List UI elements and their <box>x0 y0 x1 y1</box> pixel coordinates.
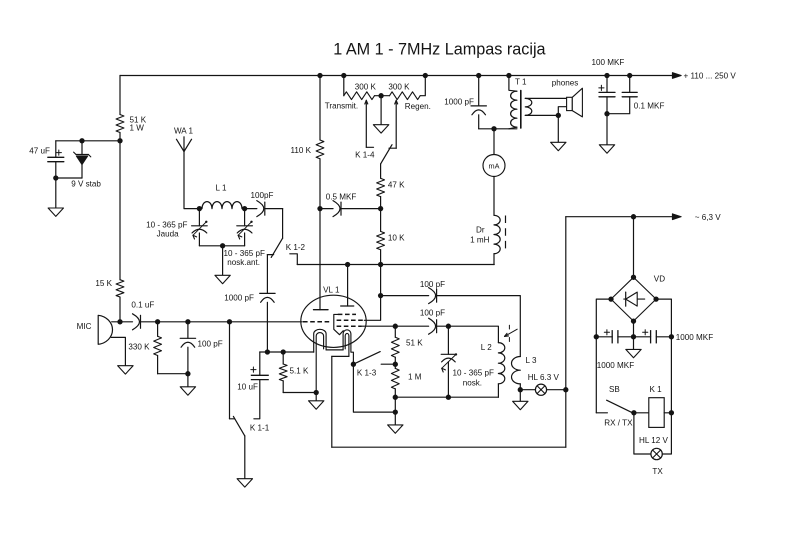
svg-text:WA 1: WA 1 <box>174 127 194 136</box>
resistor 15K <box>116 280 124 297</box>
wire lamp to 6.3V rail <box>547 389 566 391</box>
wire mic to cap <box>112 321 120 323</box>
tube anode shield bracket <box>334 314 344 334</box>
ground cathode <box>309 401 324 409</box>
node bus 110K <box>317 73 322 78</box>
capacitor 1000 pF <box>266 255 268 294</box>
diode VD symbol <box>624 298 645 300</box>
wire tank bottom bus <box>395 396 498 398</box>
svg-text:+ 110 ... 250 V: + 110 ... 250 V <box>684 71 737 80</box>
capacitor 100pF antenna coupling <box>245 208 257 210</box>
node shunt bottom <box>185 371 190 376</box>
svg-text:RX / TX: RX / TX <box>604 418 633 427</box>
svg-text:100 pF: 100 pF <box>420 309 445 318</box>
svg-text:10 K: 10 K <box>388 233 405 242</box>
wire mA to Dr <box>493 177 495 216</box>
diode 9V stab zener <box>81 141 83 155</box>
wire SB to relay <box>634 412 649 414</box>
ground divider <box>388 425 403 433</box>
resistor 51K grid leak <box>394 326 396 337</box>
wire +B top bus <box>120 75 673 77</box>
wire 110K lower <box>319 159 321 209</box>
svg-text:47 uF: 47 uF <box>29 147 50 156</box>
tube grid dashes row2 screen <box>337 319 365 321</box>
speaker phones <box>567 97 573 110</box>
wire SB feed <box>595 337 597 413</box>
transformer T1 core <box>520 91 522 129</box>
switch K1-3 contact <box>381 363 395 365</box>
wire plate output <box>362 325 396 327</box>
wire tank ground stem <box>222 246 224 275</box>
inductor L2 <box>498 343 504 384</box>
wire phones bottom riser <box>558 107 566 116</box>
wire 6.3V horizontal <box>566 216 673 218</box>
wire VD right branch <box>656 299 671 337</box>
switch K1-2 blade <box>271 238 282 257</box>
wire L3 ground stem <box>519 390 521 402</box>
node bus pot left <box>341 73 346 78</box>
inductor L1 <box>202 202 242 209</box>
rectifier VD bridge diamond <box>611 277 656 321</box>
ground stab filter <box>48 208 63 216</box>
svg-text:phones: phones <box>552 79 579 88</box>
node divider ground <box>393 409 398 414</box>
wire to ground stab <box>55 178 57 208</box>
node tank bottom varcap <box>446 395 451 400</box>
node varcap top <box>446 324 451 329</box>
wire VD feed <box>633 217 635 278</box>
wire 5.1K bottom <box>283 392 316 394</box>
node K1-1 branch <box>227 319 232 324</box>
svg-text:100pF: 100pF <box>251 191 274 200</box>
svg-text:110 K: 110 K <box>290 146 311 155</box>
svg-text:L 2: L 2 <box>481 343 492 352</box>
ground VD center <box>626 349 641 357</box>
tube grid dashes left <box>303 321 331 323</box>
svg-text:1000 MKF: 1000 MKF <box>676 333 713 342</box>
node bus 1000pF <box>476 73 481 78</box>
wire mic lower terminal <box>111 337 125 365</box>
svg-text:SB: SB <box>609 385 620 394</box>
inductor L3 <box>511 357 520 384</box>
node VD bottom <box>631 318 636 323</box>
svg-text:10 - 365 pF: 10 - 365 pF <box>146 221 187 230</box>
ground PSU filter <box>599 145 614 153</box>
svg-text:K 1-3: K 1-3 <box>357 369 377 378</box>
wire relay right <box>664 412 671 414</box>
ground phones <box>551 142 566 150</box>
wire L1 tank bottom <box>199 245 244 247</box>
node relay right <box>669 410 674 415</box>
svg-text:47 K: 47 K <box>388 180 405 189</box>
svg-text:10 - 365 pF: 10 - 365 pF <box>224 249 265 258</box>
wire K1-1 left contact <box>229 322 231 419</box>
svg-text:10 - 365 pF: 10 - 365 pF <box>453 369 494 378</box>
arrow +110..250V output <box>672 73 681 79</box>
node 1000pF cathode <box>265 349 270 354</box>
wire heater jog <box>332 355 349 357</box>
node phones ground <box>556 113 561 118</box>
antenna WA 1 <box>183 137 185 152</box>
tube grid dashes row3 <box>337 325 362 327</box>
svg-text:nosk.ant.: nosk.ant. <box>227 258 260 267</box>
wire antenna down <box>184 152 199 209</box>
svg-text:1 AM 1 - 7MHz Lampas racija: 1 AM 1 - 7MHz Lampas racija <box>333 41 545 59</box>
svg-text:10 uF: 10 uF <box>237 383 258 392</box>
wire grid2 stem <box>347 265 349 307</box>
capacitor variable 10-365 pF Jauda <box>192 225 208 227</box>
svg-text:HL 12 V: HL 12 V <box>639 436 669 445</box>
meter mA <box>483 155 505 177</box>
wire grid bus to Dr <box>297 264 494 266</box>
svg-text:Transmit.: Transmit. <box>325 101 358 110</box>
node L1 left <box>197 206 202 211</box>
wire L1 right leg <box>244 209 246 226</box>
capacitor 1000 pF anode <box>478 76 480 106</box>
node cathode ground <box>314 390 319 395</box>
svg-text:1 M: 1 M <box>408 373 422 382</box>
svg-text:9 V stab: 9 V stab <box>71 180 101 189</box>
resistor 47K <box>380 164 382 178</box>
svg-text:HL 6.3 V: HL 6.3 V <box>528 373 560 382</box>
wire out1 to L3 <box>437 296 521 357</box>
node L1 right <box>242 206 247 211</box>
resistor 330K <box>157 322 159 337</box>
svg-text:330 K: 330 K <box>128 343 150 352</box>
wire 6.3V rail vertical <box>565 217 567 448</box>
node pot center <box>378 93 383 98</box>
plus 10uF polarity <box>251 369 256 371</box>
inductor Dr 1mH <box>494 215 500 253</box>
lamp HL 6.3 V <box>535 384 546 395</box>
svg-text:0.1 MKF: 0.1 MKF <box>634 102 665 111</box>
svg-text:MIC: MIC <box>77 322 92 331</box>
plus 100MKF polarity <box>599 87 604 89</box>
node 0.5MKF left <box>317 206 322 211</box>
svg-text:mA: mA <box>489 161 500 170</box>
node plate 51K top <box>393 324 398 329</box>
node 51K-1M junction <box>393 362 398 367</box>
svg-text:1 W: 1 W <box>130 124 145 133</box>
wire 51K to 15K rail <box>119 133 121 280</box>
ground audio shunt <box>180 387 195 395</box>
svg-text:T 1: T 1 <box>515 78 527 87</box>
coupling arrow L2-L3 <box>505 329 518 336</box>
wire to HL6.3 lamp <box>520 389 535 391</box>
svg-text:0.5 MKF: 0.5 MKF <box>326 192 357 201</box>
switch K1-4 blade <box>381 145 392 164</box>
wire divider ground stem <box>394 412 396 425</box>
capacitor variable 10-365 pF nosk.ant. <box>237 225 253 227</box>
tube heater hairpin right <box>343 330 353 364</box>
wire 15K to mic node <box>119 297 121 322</box>
wire phones bottom <box>525 114 558 116</box>
svg-text:100 MKF: 100 MKF <box>592 58 625 67</box>
tube cathode hairpin left <box>314 329 326 352</box>
wire pot right lead <box>420 76 425 96</box>
resistor 51K 1W <box>116 115 124 133</box>
tube VL1 envelope <box>301 295 366 347</box>
node tank bottom <box>220 243 225 248</box>
wire 10K to screen node <box>380 265 382 296</box>
switch K1-2 left contact <box>267 254 273 256</box>
node bus 0.1MKF <box>627 73 632 78</box>
node K1-3 pivot <box>351 362 356 367</box>
ground K1-1 <box>237 479 252 487</box>
plus 47uF polarity <box>56 152 61 154</box>
wire VD left branch <box>596 299 611 337</box>
wire L2 bottom <box>497 384 499 397</box>
node 10K bottom <box>378 262 383 267</box>
wiper Transmit arrow <box>365 100 367 147</box>
capacitor 0.1 MKF <box>629 76 631 93</box>
node mA branch <box>491 126 496 131</box>
wire left rail upper <box>119 76 121 115</box>
svg-text:1000 pF: 1000 pF <box>224 294 254 303</box>
svg-text:K 1: K 1 <box>650 385 663 394</box>
plus 1000MKF left <box>604 331 609 333</box>
ground pot center <box>373 125 388 133</box>
svg-text:K 1-4: K 1-4 <box>355 151 375 160</box>
svg-text:100 pF: 100 pF <box>198 340 223 349</box>
svg-text:5.1 K: 5.1 K <box>290 367 310 376</box>
resistor 1M <box>391 368 399 389</box>
microphone MIC <box>98 315 112 344</box>
node bus pot right <box>423 73 428 78</box>
node 6.3V VD branch <box>631 214 636 219</box>
node VD left <box>608 296 613 301</box>
capacitor 100 pF shunt <box>187 322 189 339</box>
capacitor 100 pF out2 <box>395 325 428 327</box>
svg-text:51 K: 51 K <box>406 339 423 348</box>
capacitor 0.1 uF <box>120 321 133 323</box>
wire 330K-100pF bottom <box>158 373 188 375</box>
wire cathode bus <box>260 351 314 353</box>
wire 110K upper <box>319 76 321 141</box>
node 5.1K top <box>281 349 286 354</box>
resistor 5.1K <box>282 352 284 364</box>
transformer T1 secondary <box>525 98 532 115</box>
wire plate cap branch <box>381 295 429 297</box>
wire K1-3 down <box>353 364 395 412</box>
wire pot center <box>375 95 390 97</box>
wire 100pF to K1-2 <box>282 209 284 239</box>
wire hairpin bar <box>326 349 343 351</box>
node filter ground <box>604 111 609 116</box>
resistor 110K <box>316 140 324 159</box>
svg-text:nosk.: nosk. <box>463 379 482 388</box>
ground L3 <box>513 401 528 409</box>
wire HL12 left <box>634 413 651 454</box>
wire zener bottom <box>56 177 82 179</box>
svg-text:VL 1: VL 1 <box>323 286 340 295</box>
node caps left <box>594 334 599 339</box>
svg-text:Dr: Dr <box>476 226 485 235</box>
wire 1000pF to T1 bottom <box>479 128 517 130</box>
node screen branch <box>378 293 383 298</box>
potentiometer 300K Transmit <box>344 92 375 100</box>
capacitor 1000 MKF right <box>634 336 651 338</box>
capacitor 47uF <box>55 141 57 158</box>
node 47uF zener bottom <box>53 175 58 180</box>
node VD right <box>653 296 658 301</box>
node VD top <box>631 275 636 280</box>
switch K1-3 blade <box>353 352 380 365</box>
svg-text:1000 pF: 1000 pF <box>444 98 474 107</box>
node bus T1 <box>506 73 511 78</box>
capacitor 1000 MKF left <box>596 336 612 338</box>
wiper Regen arrow <box>395 100 397 148</box>
wire grid1 stem <box>319 209 321 310</box>
svg-text:L 3: L 3 <box>526 356 537 365</box>
svg-text:1000 MKF: 1000 MKF <box>597 361 634 370</box>
wire filter ground stem <box>606 114 608 145</box>
node caps right <box>669 334 674 339</box>
svg-text:K 1-1: K 1-1 <box>250 424 270 433</box>
capacitor 0.5 MKF <box>320 208 333 210</box>
arrow 6.3V output <box>672 214 681 220</box>
wire pot left lead <box>343 76 345 96</box>
svg-text:0.1 uF: 0.1 uF <box>131 301 154 310</box>
svg-text:VD: VD <box>654 274 665 283</box>
relay K1 coil <box>649 398 664 428</box>
node L3 bottom <box>518 387 523 392</box>
wire heater bottom run <box>332 446 566 448</box>
lamp HL 12 V <box>651 448 662 459</box>
node SB relay <box>631 410 636 415</box>
svg-text:1 mH: 1 mH <box>470 236 489 245</box>
svg-text:~ 6,3 V: ~ 6,3 V <box>695 213 721 222</box>
wire mA upper <box>493 129 495 155</box>
transformer T1 primary <box>509 76 517 92</box>
wire phones ground stem <box>557 115 559 142</box>
wire L1 left leg <box>198 209 200 226</box>
node 100pF shunt top <box>185 319 190 324</box>
wire VD bottom branch <box>633 321 635 337</box>
wire K1-1 to ground <box>244 436 246 479</box>
wire HL12 right <box>662 413 671 454</box>
svg-text:300 K: 300 K <box>355 82 377 91</box>
wire relay right rail <box>670 337 672 413</box>
svg-text:Regen.: Regen. <box>405 102 431 111</box>
wire pot center ground stem <box>380 96 382 125</box>
node 6.3V rail lamp <box>563 387 568 392</box>
wire phones top <box>525 97 566 99</box>
svg-text:300 K: 300 K <box>388 82 410 91</box>
capacitor variable 10-365 pF nosk <box>447 326 449 354</box>
capacitor 100 MKF <box>606 76 608 93</box>
node 1M bottom <box>393 395 398 400</box>
core Dr dashed <box>505 216 507 254</box>
switch SB contact <box>596 412 607 414</box>
resistor 10K <box>380 209 382 232</box>
node mic grid wire <box>117 319 122 324</box>
wire heater down <box>331 356 333 447</box>
node caps center <box>631 334 636 339</box>
wire cathode ground stem <box>315 393 317 401</box>
capacitor 100 pF out1 <box>429 288 436 304</box>
svg-text:TX: TX <box>652 467 663 476</box>
node zener tap <box>79 138 84 143</box>
wire L3 bottom <box>519 384 521 390</box>
capacitor 10 uF <box>259 352 261 375</box>
svg-text:15 K: 15 K <box>95 279 112 288</box>
ground mic <box>118 366 133 374</box>
switch K1-1 blade <box>233 416 244 436</box>
switch SB blade <box>607 400 632 412</box>
svg-text:100 pF: 100 pF <box>420 280 445 289</box>
svg-text:K 1-2: K 1-2 <box>286 243 306 252</box>
wire branch to 47uF <box>56 140 120 142</box>
node 51K bottom junction <box>117 138 122 143</box>
switch K1-2 right contact bracket <box>290 254 298 265</box>
node grid2 stem <box>345 262 350 267</box>
node bus 100MKF <box>604 73 609 78</box>
potentiometer 300K Regen <box>390 92 421 100</box>
ground tank <box>215 275 230 283</box>
svg-text:Jauda: Jauda <box>157 230 180 239</box>
wire caps center ground stem <box>633 337 635 350</box>
wire out2 to L2 <box>437 326 499 342</box>
tube grid dashes row1 <box>338 313 356 315</box>
node 330K top <box>155 319 160 324</box>
svg-text:L 1: L 1 <box>216 184 227 193</box>
wire grid line <box>141 321 303 323</box>
node 47K 10K junction <box>378 206 383 211</box>
wire shunt ground stem <box>187 374 189 387</box>
wire screen connection <box>364 296 380 321</box>
wire Dr bottom <box>493 254 495 265</box>
plus 1000MKF right <box>643 331 648 333</box>
